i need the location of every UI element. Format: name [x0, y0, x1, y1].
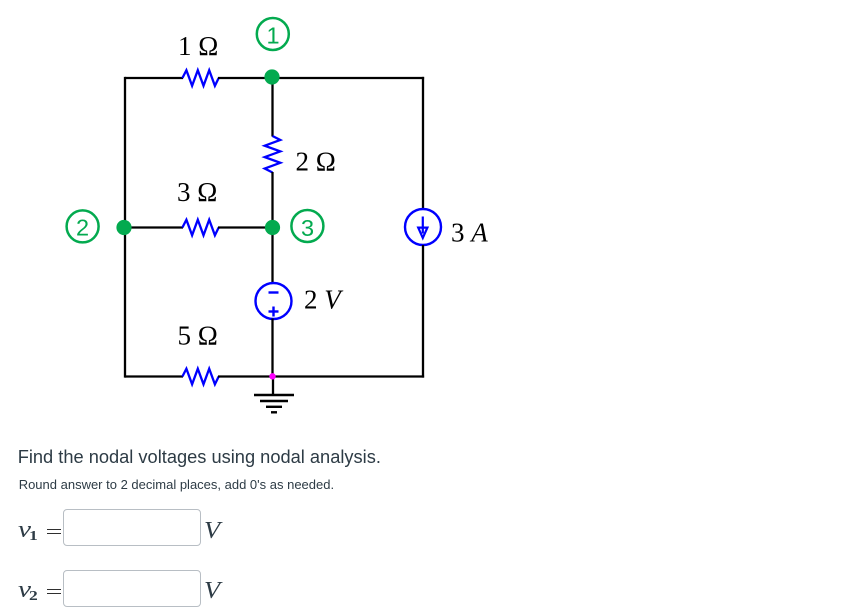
ground symbol [254, 377, 294, 413]
resistor R1 (1 ohm) zigzag [182, 70, 218, 86]
node 3 label circle [291, 210, 323, 242]
svg-text:2: 2 [76, 215, 89, 241]
label: 2 ohm value [296, 146, 336, 176]
svg-text:1: 1 [266, 22, 279, 48]
answer row v1: label v1 [18, 517, 31, 544]
wire: left rail (top-left to bottom-left through node 2) [124, 77, 126, 378]
svg-text:3 A: 3 A [451, 218, 488, 248]
wire: node 1 down to R2 [271, 78, 273, 137]
wire: voltage source to bottom rail [271, 319, 273, 378]
wire: right rail upper (top-right corner to current source) [422, 77, 424, 210]
label: 3 A value [451, 218, 488, 248]
voltage source V1 plus sign (bottom) [269, 307, 279, 317]
node 1 label circle [257, 18, 289, 50]
node 1 junction dot [264, 69, 279, 84]
answer row v1: equals sign [47, 529, 62, 531]
label: 1 ohm value [178, 31, 218, 61]
ground node dot (magenta) [269, 373, 275, 379]
svg-text:2 V: 2 V [304, 284, 344, 314]
node 3 junction dot [265, 220, 280, 235]
answer row v1: unit V [204, 518, 220, 545]
current source I1 (3 A) circle [405, 209, 441, 245]
resistor R2 (2 ohm) vertical zigzag [265, 136, 281, 173]
resistor R3 (3 ohm) zigzag [182, 220, 218, 236]
answer row v2: label v2 [18, 577, 31, 604]
answer row v2: equals sign [47, 589, 62, 591]
wire: node 3 down to voltage source [271, 228, 273, 285]
wire: node 1 to top-right corner [273, 77, 425, 79]
voltage source V1 minus sign (top) [269, 291, 279, 293]
wire: R1 to node 1 [218, 77, 273, 79]
question text line 1 [18, 446, 381, 468]
wire: right rail lower (current source to bottom-right corner) [422, 245, 424, 378]
node 2 junction dot [116, 220, 131, 235]
resistor R4 (5 ohm) zigzag [182, 369, 218, 385]
node 2 label circle [67, 210, 99, 242]
answer row v2: input box [63, 570, 201, 607]
label: 3 ohm value [177, 177, 217, 207]
svg-text:1 Ω: 1 Ω [178, 31, 218, 61]
question text line 2 [19, 477, 334, 492]
wire: R2 to node 3 [271, 172, 273, 228]
wire: top-left corner to R1 [125, 77, 183, 79]
label: 5 ohm value [178, 320, 218, 350]
wire: R3 to node 3 [218, 226, 273, 228]
wire: node 2 to R3 [125, 226, 183, 228]
label: 2 V value [304, 284, 344, 314]
wire: bottom-left corner to R4 [125, 375, 183, 377]
answer row v2: unit V [204, 578, 220, 605]
answer row v1: input box [63, 509, 201, 546]
wire: R4 to bottom-right corner [218, 375, 424, 377]
svg-text:2 Ω: 2 Ω [296, 146, 336, 176]
voltage source V1 (2 V) circle [256, 283, 292, 319]
svg-text:5 Ω: 5 Ω [178, 320, 218, 350]
svg-text:3 Ω: 3 Ω [177, 177, 217, 207]
svg-text:3: 3 [301, 215, 314, 241]
current source I1 arrow (pointing down) [418, 217, 427, 238]
